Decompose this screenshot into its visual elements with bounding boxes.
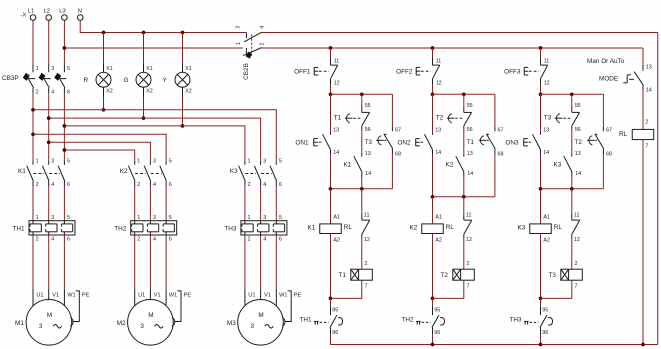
svg-text:2: 2 [36,89,39,95]
node timer return [329,297,333,301]
wire [32,186,34,221]
wire N bus right [261,32,658,34]
wire phase distribution [49,118,261,160]
wire upper junction bar [331,93,393,95]
svg-text:12: 12 [544,80,550,86]
svg-text:RL: RL [619,131,628,138]
svg-text:OFF2: OFF2 [396,69,413,76]
svg-text:X1: X1 [146,66,153,72]
wire [361,130,363,154]
svg-text:T2: T2 [436,115,444,122]
node branch2 top [570,92,574,96]
overload contact TH2 (NC) [432,306,434,315]
contactor K3 pole 2 [260,160,262,165]
heater element TH1 pole 2 [48,221,50,224]
contactor K1 pole 1 [32,160,34,165]
node upper junction 1 [329,92,333,96]
heater element TH1 pole 1 [32,221,34,224]
wire control bus right [261,47,643,49]
svg-text:14: 14 [575,171,581,177]
timer contact T2 (delay NC) [463,107,465,112]
wire bottom bus [331,344,658,346]
svg-text:M: M [47,312,52,319]
wire RL return [642,140,644,345]
node lamp R [102,108,106,112]
wire [63,186,65,221]
svg-text:M: M [258,312,263,319]
node lower junction main [329,187,333,191]
svg-text:3: 3 [153,215,156,221]
svg-text:K2: K2 [410,224,418,231]
pushbutton OFF2 [432,58,434,65]
wire [432,94,434,132]
svg-text:M1: M1 [15,320,24,327]
wire [63,235,65,289]
wire [571,239,573,270]
wire [260,186,262,221]
wire [48,186,50,221]
svg-text:1: 1 [36,66,39,72]
svg-text:2: 2 [575,261,578,267]
terminal N [77,15,83,21]
svg-text:L3: L3 [59,9,65,15]
wire [391,94,393,126]
wire [330,334,332,345]
wire [330,298,332,306]
svg-text:96: 96 [542,330,548,336]
svg-text:2: 2 [36,237,39,243]
wire phase distribution [33,134,166,160]
svg-text:G: G [124,77,129,84]
node RL bottom [641,343,645,347]
wire lower junction bar 3 [541,188,604,190]
svg-text:1: 1 [248,159,251,165]
heater element TH2 pole 2 [149,221,151,224]
svg-text:12: 12 [364,237,370,243]
svg-text:K3: K3 [518,224,526,231]
svg-text:6: 6 [67,237,70,243]
wire [63,94,65,161]
node N-lamp Y [181,31,185,35]
contactor K2 pole 3 [165,160,167,165]
wire [432,197,434,224]
wire [432,234,434,299]
node phase tap [47,116,51,120]
terminal L2 [46,15,52,21]
wire [494,155,496,197]
svg-text:L2: L2 [44,9,50,15]
svg-text:11: 11 [466,213,472,219]
wire [391,155,393,189]
svg-text:M2: M2 [117,320,126,327]
wire [540,189,542,224]
svg-text:3: 3 [263,215,266,221]
svg-text:T1: T1 [339,272,347,279]
svg-text:4: 4 [153,237,156,243]
node upper junction 3 [539,92,543,96]
svg-text:R: R [84,77,89,84]
svg-text:11: 11 [436,58,442,64]
wire lamp R drop [103,97,105,110]
svg-text:5: 5 [67,159,70,165]
svg-text:4: 4 [153,182,156,188]
svg-text:12: 12 [574,237,580,243]
svg-text:95: 95 [332,307,338,313]
wire [463,130,465,154]
svg-text:7: 7 [645,144,648,150]
svg-text:13: 13 [543,128,549,134]
svg-text:3: 3 [51,159,54,165]
svg-text:TH3: TH3 [510,317,523,324]
timer coil T2 [453,269,475,280]
contactor K2 pole 1 [134,160,136,165]
svg-text:RL: RL [446,224,455,231]
svg-text:U1: U1 [138,292,145,298]
protective earth PE [285,291,291,322]
auxiliary contact K3 (NO) [571,154,573,157]
heater element TH3 pole 2 [260,221,262,224]
wire [361,189,363,214]
switch MODE (manual NO) [642,65,644,71]
svg-text:12: 12 [466,237,472,243]
pushbutton ON2 [432,132,434,135]
terminal L1 [30,15,36,21]
svg-text:ON3: ON3 [505,139,519,146]
thermal symbol [416,320,421,322]
thermal symbol [314,320,319,322]
svg-text:X2: X2 [106,88,113,94]
wire [165,235,167,289]
svg-text:2: 2 [137,237,140,243]
svg-text:4: 4 [263,237,266,243]
svg-text:K1: K1 [344,161,352,168]
wire timer return [433,280,464,298]
timer contact T1 (delay NO) [494,126,496,131]
wire [63,20,65,64]
thermal symbol [524,320,529,322]
lamp Y [182,33,184,65]
svg-text:14: 14 [435,150,441,156]
svg-text:3: 3 [236,26,242,29]
node L3 control tap [63,46,67,50]
svg-text:V1: V1 [52,292,59,298]
node N-lamp R [102,31,106,35]
svg-text:56: 56 [365,127,371,133]
wire [330,155,332,189]
protective earth PE [175,291,181,322]
svg-text:2: 2 [36,182,39,188]
heater element TH2 pole 1 [134,221,136,224]
svg-text:RL: RL [344,224,353,231]
svg-text:K3: K3 [230,168,238,175]
relay coil RL [632,129,654,139]
svg-text:PE: PE [82,292,90,298]
svg-text:3: 3 [153,159,156,165]
svg-text:55: 55 [365,103,371,109]
node N-lamp G [142,31,146,35]
svg-text:RL: RL [554,224,563,231]
svg-text:1: 1 [236,42,242,45]
node lower junction main [539,187,543,191]
heater element TH3 pole 1 [244,221,246,224]
svg-text:5: 5 [279,159,282,165]
wire [463,239,465,270]
wire [540,48,542,58]
svg-text:13: 13 [333,128,339,134]
overload contact TH1 (NC) [330,306,332,315]
svg-text:68: 68 [395,151,401,157]
wire [32,20,34,64]
svg-text:55: 55 [575,103,581,109]
mechanical link CB2B [251,35,253,54]
svg-text:X2: X2 [185,88,192,94]
svg-text:TH1: TH1 [13,226,26,233]
svg-text:N: N [78,9,82,15]
wire [432,84,434,94]
svg-text:14: 14 [646,88,652,94]
svg-text:MODE: MODE [599,75,618,82]
svg-text:14: 14 [333,150,339,156]
svg-text:4: 4 [263,182,266,188]
wire [48,20,50,64]
svg-text:PE: PE [294,292,302,298]
wire [361,94,363,107]
svg-text:13: 13 [435,128,441,134]
node timer return [539,297,543,301]
svg-text:3: 3 [140,323,144,330]
svg-text:13: 13 [575,151,581,157]
auxiliary contact K2 (NO) [463,154,465,157]
svg-text:2: 2 [260,43,266,46]
node phase tap [47,140,51,144]
svg-text:6: 6 [169,182,172,188]
svg-text:6: 6 [67,182,70,188]
svg-text:PE: PE [184,292,192,298]
contactor coil K2 [422,224,444,234]
svg-text:11: 11 [334,58,340,64]
svg-text:3: 3 [251,323,255,330]
svg-text:2: 2 [467,261,470,267]
contactor K3 pole 3 [275,160,277,165]
svg-text:4: 4 [51,182,54,188]
wire phase distribution [33,110,276,161]
node phase tap [31,108,35,112]
wire [361,239,363,270]
wire [463,94,465,107]
svg-text:A1: A1 [333,214,340,220]
overload relay TH3 [241,221,287,235]
svg-text:2: 2 [365,261,368,267]
svg-text:TH1: TH1 [300,317,313,324]
svg-text:T3: T3 [544,115,552,122]
svg-text:13: 13 [646,64,652,70]
wire lower junction bar 2 [433,196,495,198]
svg-text:95: 95 [434,307,440,313]
timer contact T3 (delay NO) [391,126,393,131]
lamp G [143,33,145,65]
svg-text:X2: X2 [146,88,153,94]
timer coil T1 [351,269,373,280]
timer contact T1 (delay NC) [361,107,363,112]
svg-text:X1: X1 [185,66,192,72]
heater element TH2 pole 3 [165,221,167,224]
svg-text:A1: A1 [543,214,550,220]
overload relay TH1 [29,221,75,235]
wire [463,177,465,197]
svg-text:CB3P: CB3P [2,75,19,82]
overload relay TH2 [131,221,177,235]
svg-text:56: 56 [467,127,473,133]
node lower junction main [431,195,435,199]
node control tap 2 [431,46,435,50]
wire upper junction bar [433,93,495,95]
circuit breaker CB3P pole 1 [32,64,34,72]
wire [275,186,277,221]
wire timer return [541,280,572,298]
wire [165,186,167,221]
wire [494,94,496,126]
svg-text:T3: T3 [365,139,373,146]
wire [540,84,542,94]
wire [432,48,434,58]
svg-text:V1: V1 [264,292,271,298]
wire [571,94,573,107]
svg-text:95: 95 [542,307,548,313]
motor M3 [238,300,284,346]
wire lamp Y drop [182,97,184,126]
svg-text:12: 12 [334,80,340,86]
wire [432,298,434,306]
wire [571,189,573,214]
wire [32,94,34,161]
wire [244,186,246,221]
node branch2 top [360,92,364,96]
circuit breaker CB3P pole 3 [63,64,65,72]
svg-text:4: 4 [51,237,54,243]
node bottom bus [431,343,435,347]
svg-text:68: 68 [498,151,504,157]
wire [463,197,465,214]
wire [149,235,151,289]
svg-text:96: 96 [332,330,338,336]
svg-text:U1: U1 [248,292,255,298]
circuit breaker CB3P pole 2 [48,64,50,72]
wire [134,235,136,289]
wire [134,186,136,221]
node phase tap [63,148,67,152]
svg-text:Y: Y [163,77,168,84]
contactor K1 pole 3 [63,160,65,165]
svg-text:2: 2 [645,119,648,125]
svg-text:55: 55 [467,103,473,109]
svg-text:X1: X1 [106,66,113,72]
timer coil T3 [561,269,583,280]
heater element TH1 pole 3 [63,221,65,224]
auxiliary contact K1 (NO) [361,154,363,157]
svg-text:67: 67 [606,127,612,133]
wire control bus [64,47,243,49]
node phase tap [31,132,35,136]
svg-text:T1: T1 [467,139,475,146]
svg-text:OFF3: OFF3 [504,69,521,76]
wire [540,155,542,189]
svg-text:Man Or AuTo: Man Or AuTo [587,58,625,65]
wire [361,177,363,189]
svg-text:56: 56 [575,127,581,133]
wire [540,298,542,306]
wire [432,334,434,345]
circuit breaker CB2B pole 2 [245,48,247,54]
node upper junction 2 [431,92,435,96]
wire [48,94,50,161]
wire [642,90,644,129]
wire phase distribution [49,142,151,160]
wire right edge bus [657,33,659,345]
svg-text:U1: U1 [36,292,43,298]
terminal L3 [62,15,68,21]
wire [330,84,332,94]
svg-text:1: 1 [248,215,251,221]
svg-text:T2: T2 [441,272,449,279]
circuit breaker CB2B pole 1 [245,33,247,39]
svg-text:W1: W1 [169,292,177,298]
svg-text:K2: K2 [120,168,128,175]
node lower junction branch2 [360,187,364,191]
svg-text:T2: T2 [575,139,583,146]
timer contact T2 (delay NO) [602,126,604,131]
wire N bus [80,20,246,32]
pushbutton ON1 [330,132,332,135]
svg-text:2: 2 [248,237,251,243]
svg-text:TH3: TH3 [224,226,237,233]
wire [540,94,542,132]
contactor coil K3 [530,224,552,234]
wire [571,130,573,154]
svg-text:13: 13 [365,151,371,157]
wire [540,334,542,345]
wire [602,155,604,189]
wire upper junction bar [541,93,604,95]
contactor coil K1 [320,224,342,234]
wire [149,186,151,221]
svg-text:3: 3 [39,323,43,330]
svg-text:14: 14 [365,171,371,177]
svg-text:W1: W1 [67,292,75,298]
svg-text:7: 7 [575,284,578,290]
svg-text:3: 3 [263,159,266,165]
svg-text:68: 68 [606,151,612,157]
overload contact TH3 (NC) [540,306,542,315]
heater element TH3 pole 3 [275,221,277,224]
contactor K2 pole 2 [149,160,151,165]
node lamp Y [181,124,185,128]
svg-text:5: 5 [67,215,70,221]
svg-text:K1: K1 [308,224,316,231]
svg-text:6: 6 [169,237,172,243]
svg-text:ON2: ON2 [397,139,411,146]
svg-text:-X: -X [21,12,27,18]
svg-text:14: 14 [467,171,473,177]
svg-text:T3: T3 [549,272,557,279]
wire [330,48,332,58]
svg-text:T1: T1 [334,115,342,122]
wire [642,48,644,65]
mechanical link K1 [34,173,45,175]
svg-text:4: 4 [51,89,54,95]
node lamp G [142,116,146,120]
wire lower junction bar 1 [331,188,393,190]
svg-text:M3: M3 [227,320,236,327]
